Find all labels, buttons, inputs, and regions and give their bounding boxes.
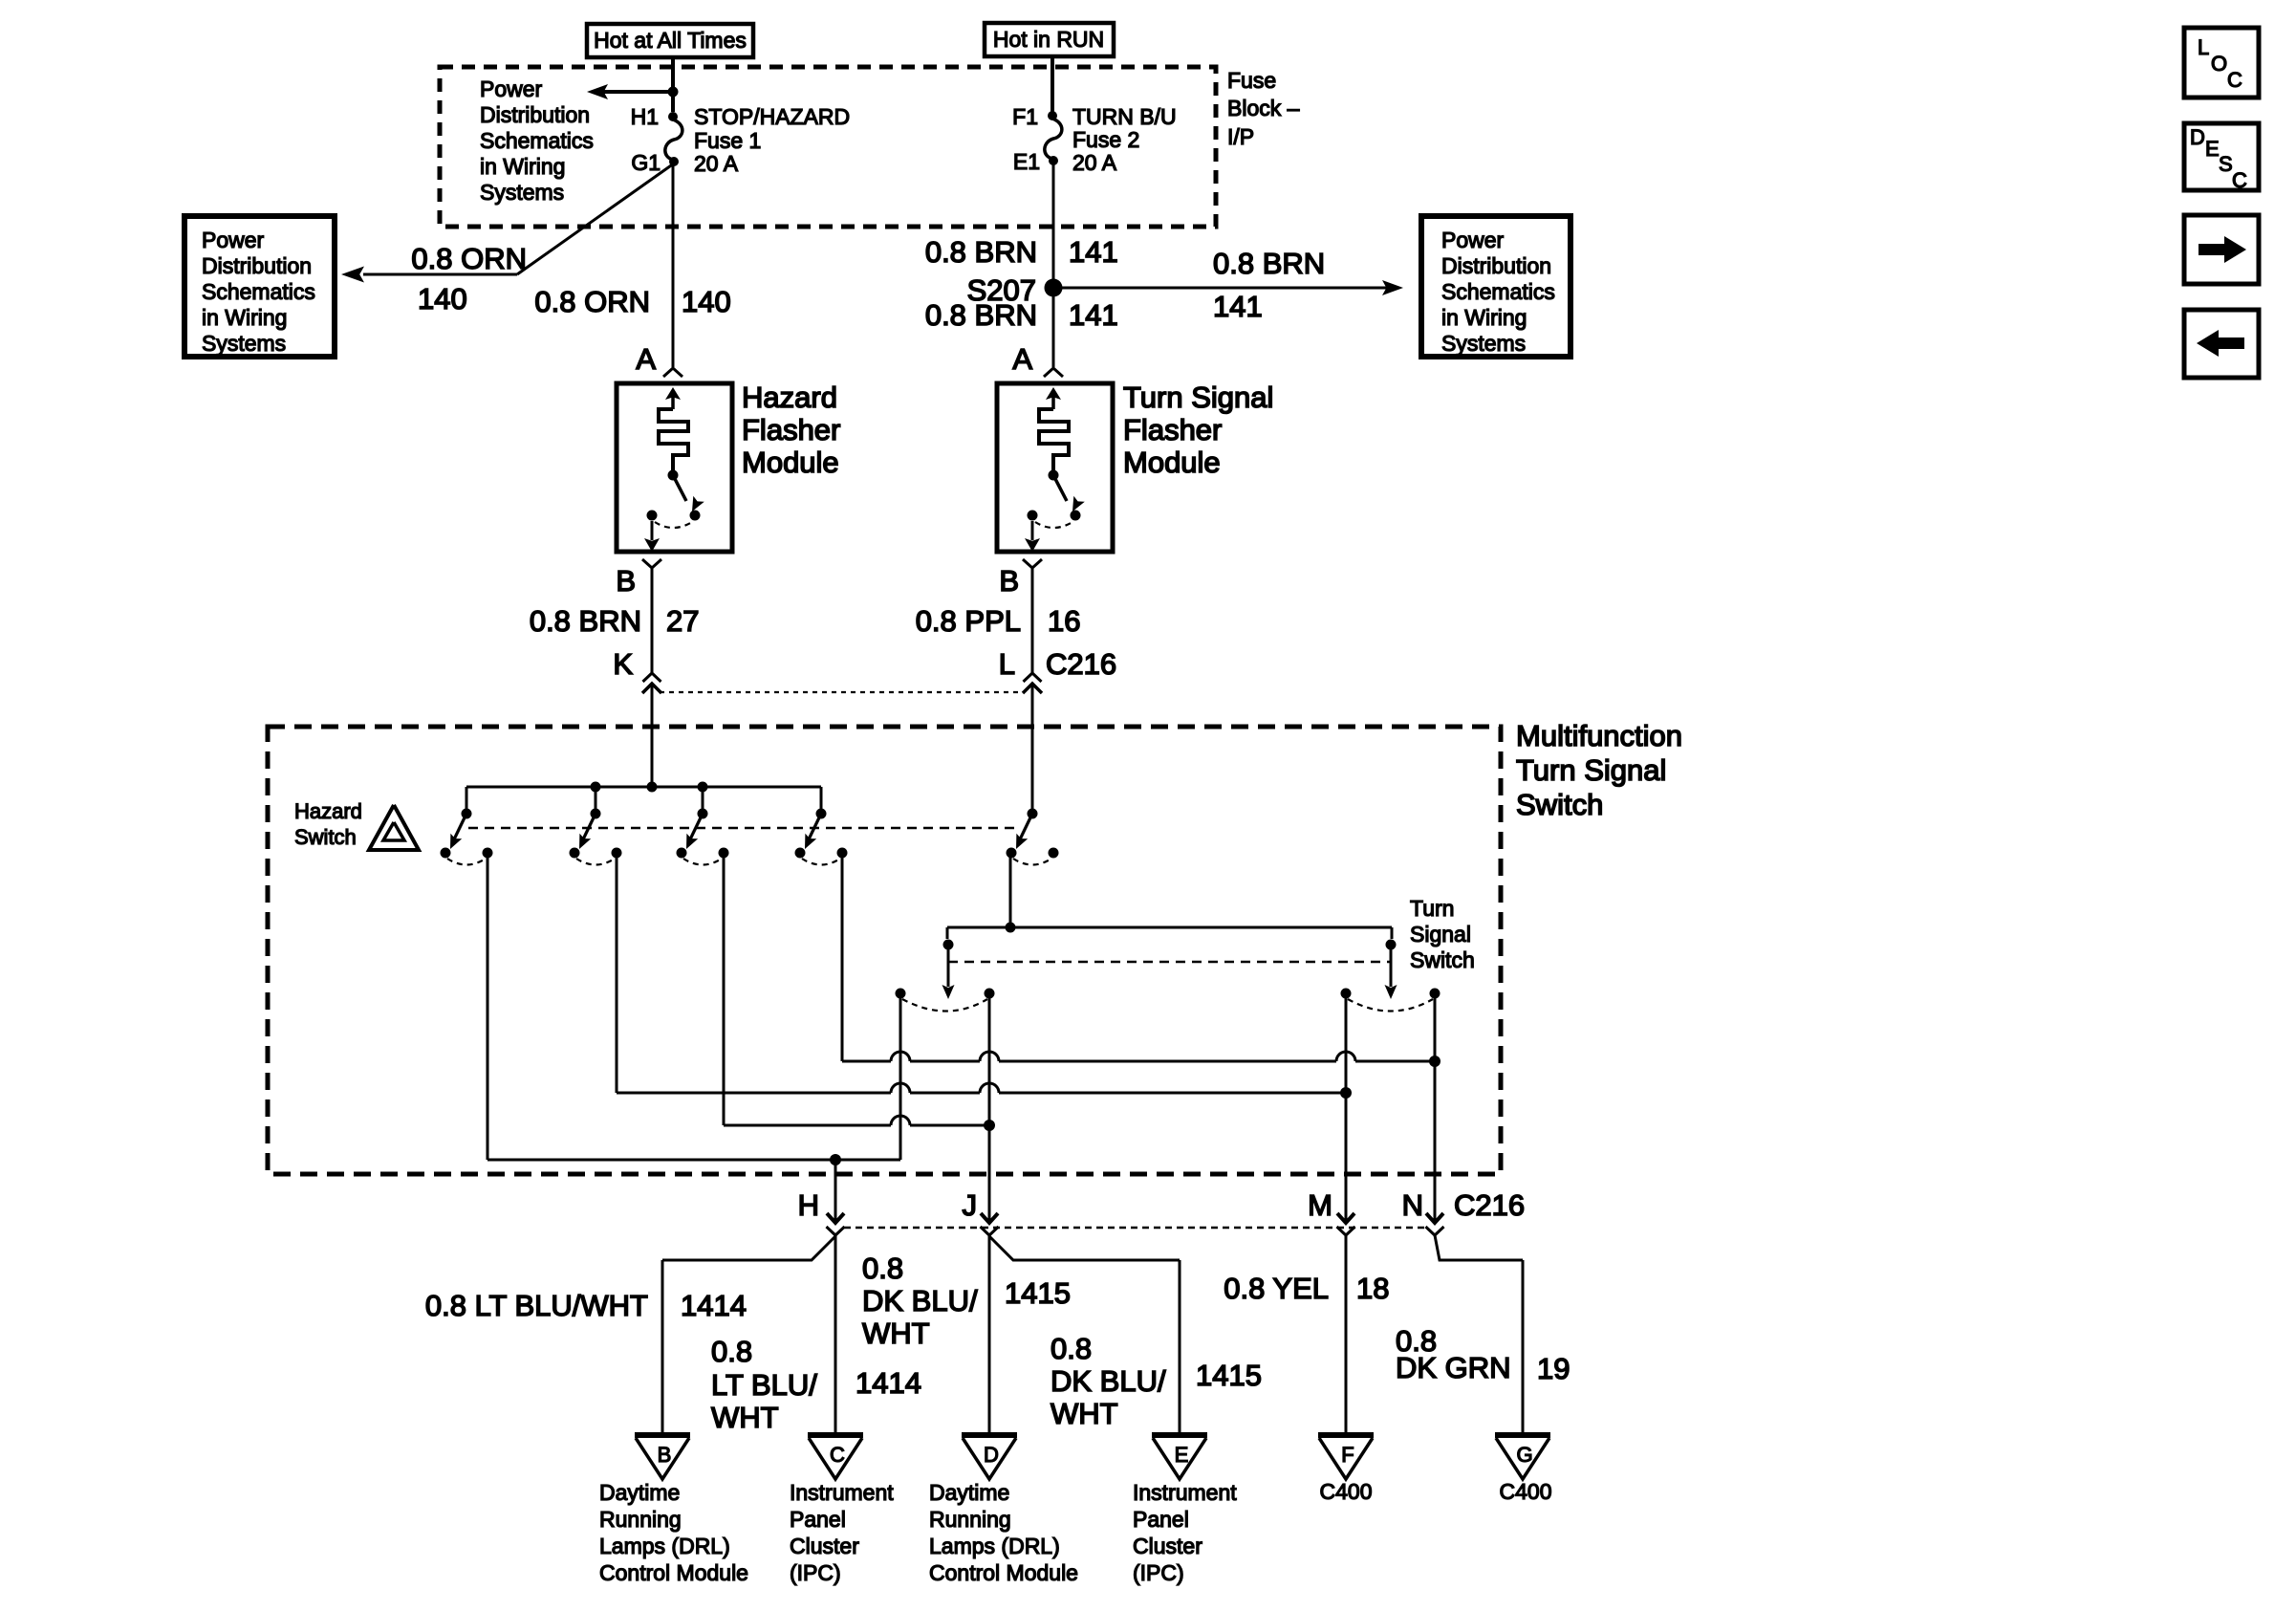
svg-text:Power: Power [1441,228,1505,252]
svg-text:Running: Running [599,1507,682,1532]
svg-text:STOP/HAZARD: STOP/HAZARD [694,104,850,129]
svg-text:0.8 BRN: 0.8 BRN [1213,247,1325,280]
svg-text:Hot at All Times: Hot at All Times [594,28,747,53]
svg-text:WHT: WHT [1051,1397,1118,1430]
svg-text:Lamps (DRL): Lamps (DRL) [929,1534,1060,1558]
svg-text:I/P: I/P [1227,124,1254,149]
svg-text:0.8: 0.8 [862,1252,903,1285]
svg-text:J: J [963,1188,978,1222]
svg-text:27: 27 [666,604,699,638]
svg-text:Fuse 1: Fuse 1 [694,128,761,153]
svg-text:H1: H1 [631,104,659,129]
svg-text:(IPC): (IPC) [1133,1560,1184,1585]
svg-text:Running: Running [929,1507,1011,1532]
svg-text:0.8 PPL: 0.8 PPL [916,604,1021,638]
svg-text:Hot in RUN: Hot in RUN [993,27,1104,52]
svg-text:Systems: Systems [202,331,286,356]
svg-text:20 A: 20 A [694,151,739,176]
svg-text:140: 140 [418,282,467,316]
svg-text:1415: 1415 [1005,1276,1071,1310]
svg-text:Fuse 2: Fuse 2 [1072,127,1139,152]
svg-text:141: 141 [1069,298,1118,332]
svg-text:0.8 YEL: 0.8 YEL [1224,1272,1329,1305]
svg-text:Systems: Systems [1441,331,1526,356]
svg-text:LT BLU/: LT BLU/ [711,1368,817,1402]
svg-text:Power: Power [202,228,265,252]
svg-text:0.8 ORN: 0.8 ORN [411,242,527,275]
svg-text:in Wiring: in Wiring [202,305,287,330]
svg-text:A: A [636,342,656,376]
svg-text:L: L [999,647,1015,681]
svg-text:G: G [1516,1443,1532,1467]
svg-text:Turn: Turn [1410,896,1454,921]
svg-text:Cluster: Cluster [1133,1534,1202,1558]
svg-text:M: M [1308,1188,1332,1222]
svg-text:Multifunction: Multifunction [1516,719,1682,752]
svg-text:B: B [999,564,1019,598]
svg-text:Schematics: Schematics [480,128,594,153]
svg-text:Schematics: Schematics [202,279,315,304]
svg-text:C216: C216 [1454,1188,1525,1222]
svg-text:Module: Module [1123,446,1221,479]
svg-text:TURN B/U: TURN B/U [1072,104,1177,129]
svg-text:E: E [2205,137,2220,161]
svg-text:D: D [2190,125,2205,149]
svg-text:F: F [1341,1443,1354,1467]
svg-text:0.8 ORN: 0.8 ORN [534,285,650,318]
svg-text:WHT: WHT [862,1317,930,1350]
svg-text:Block –: Block – [1227,96,1300,120]
svg-text:Switch: Switch [1516,788,1603,821]
svg-text:E1: E1 [1013,149,1040,174]
svg-text:Turn Signal: Turn Signal [1516,753,1666,787]
svg-text:19: 19 [1537,1352,1570,1385]
svg-text:0.8 BRN: 0.8 BRN [925,235,1037,269]
svg-text:Module: Module [742,446,839,479]
svg-text:Lamps (DRL): Lamps (DRL) [599,1534,730,1558]
svg-text:E: E [1175,1443,1189,1467]
svg-text:DK BLU/: DK BLU/ [862,1284,978,1317]
svg-text:Flasher: Flasher [742,413,840,446]
svg-text:1414: 1414 [681,1289,747,1322]
svg-text:G1: G1 [631,150,661,175]
svg-text:in Wiring: in Wiring [480,154,565,179]
svg-text:C400: C400 [1320,1479,1373,1504]
svg-text:B: B [658,1443,672,1467]
svg-text:Distribution: Distribution [1441,253,1551,278]
svg-text:Hazard: Hazard [294,799,362,823]
svg-text:WHT: WHT [711,1401,779,1434]
svg-text:L: L [2198,35,2209,59]
svg-text:0.8: 0.8 [1051,1332,1092,1365]
svg-text:Flasher: Flasher [1123,413,1222,446]
svg-text:141: 141 [1213,290,1263,323]
svg-text:Control Module: Control Module [929,1560,1078,1585]
svg-text:Switch: Switch [294,825,357,849]
svg-text:1415: 1415 [1196,1359,1262,1392]
svg-text:Instrument: Instrument [790,1480,894,1505]
svg-text:S: S [2219,152,2233,176]
svg-text:0.8 BRN: 0.8 BRN [530,604,641,638]
svg-text:Instrument: Instrument [1133,1480,1237,1505]
svg-text:0.8 LT BLU/WHT: 0.8 LT BLU/WHT [425,1289,648,1322]
svg-text:K: K [613,647,633,681]
svg-text:Power: Power [480,76,543,101]
svg-text:Hazard: Hazard [742,381,837,414]
svg-text:Signal: Signal [1410,922,1471,947]
svg-text:D: D [984,1443,999,1467]
svg-text:Distribution: Distribution [202,253,312,278]
svg-text:18: 18 [1356,1272,1389,1305]
svg-text:Fuse: Fuse [1227,68,1276,93]
svg-text:B: B [616,564,636,598]
svg-text:1414: 1414 [856,1366,921,1400]
svg-text:Panel: Panel [790,1507,846,1532]
svg-text:Switch: Switch [1410,947,1475,972]
svg-text:N: N [1402,1188,1423,1222]
svg-text:Daytime: Daytime [929,1480,1009,1505]
svg-text:A: A [1012,342,1032,376]
svg-text:F1: F1 [1012,104,1038,129]
svg-text:16: 16 [1048,604,1080,638]
svg-text:DK GRN: DK GRN [1396,1351,1511,1384]
svg-text:C216: C216 [1046,647,1116,681]
svg-text:Control Module: Control Module [599,1560,748,1585]
svg-text:C: C [830,1443,845,1467]
svg-text:Systems: Systems [480,180,564,205]
svg-text:Panel: Panel [1133,1507,1189,1532]
svg-text:Daytime: Daytime [599,1480,680,1505]
svg-text:20 A: 20 A [1072,150,1117,175]
svg-text:141: 141 [1069,235,1118,269]
svg-text:Turn Signal: Turn Signal [1123,381,1273,414]
svg-text:Cluster: Cluster [790,1534,859,1558]
svg-text:0.8 BRN: 0.8 BRN [925,298,1037,332]
svg-text:(IPC): (IPC) [790,1560,841,1585]
svg-text:O: O [2211,52,2227,76]
svg-text:140: 140 [682,285,731,318]
svg-text:H: H [798,1188,819,1222]
svg-text:C: C [2232,168,2247,192]
svg-text:in Wiring: in Wiring [1441,305,1527,330]
svg-text:Distribution: Distribution [480,102,590,127]
svg-text:C400: C400 [1500,1479,1552,1504]
svg-text:0.8: 0.8 [711,1335,752,1368]
svg-text:DK BLU/: DK BLU/ [1051,1364,1166,1398]
svg-text:Schematics: Schematics [1441,279,1555,304]
svg-text:C: C [2227,68,2242,92]
